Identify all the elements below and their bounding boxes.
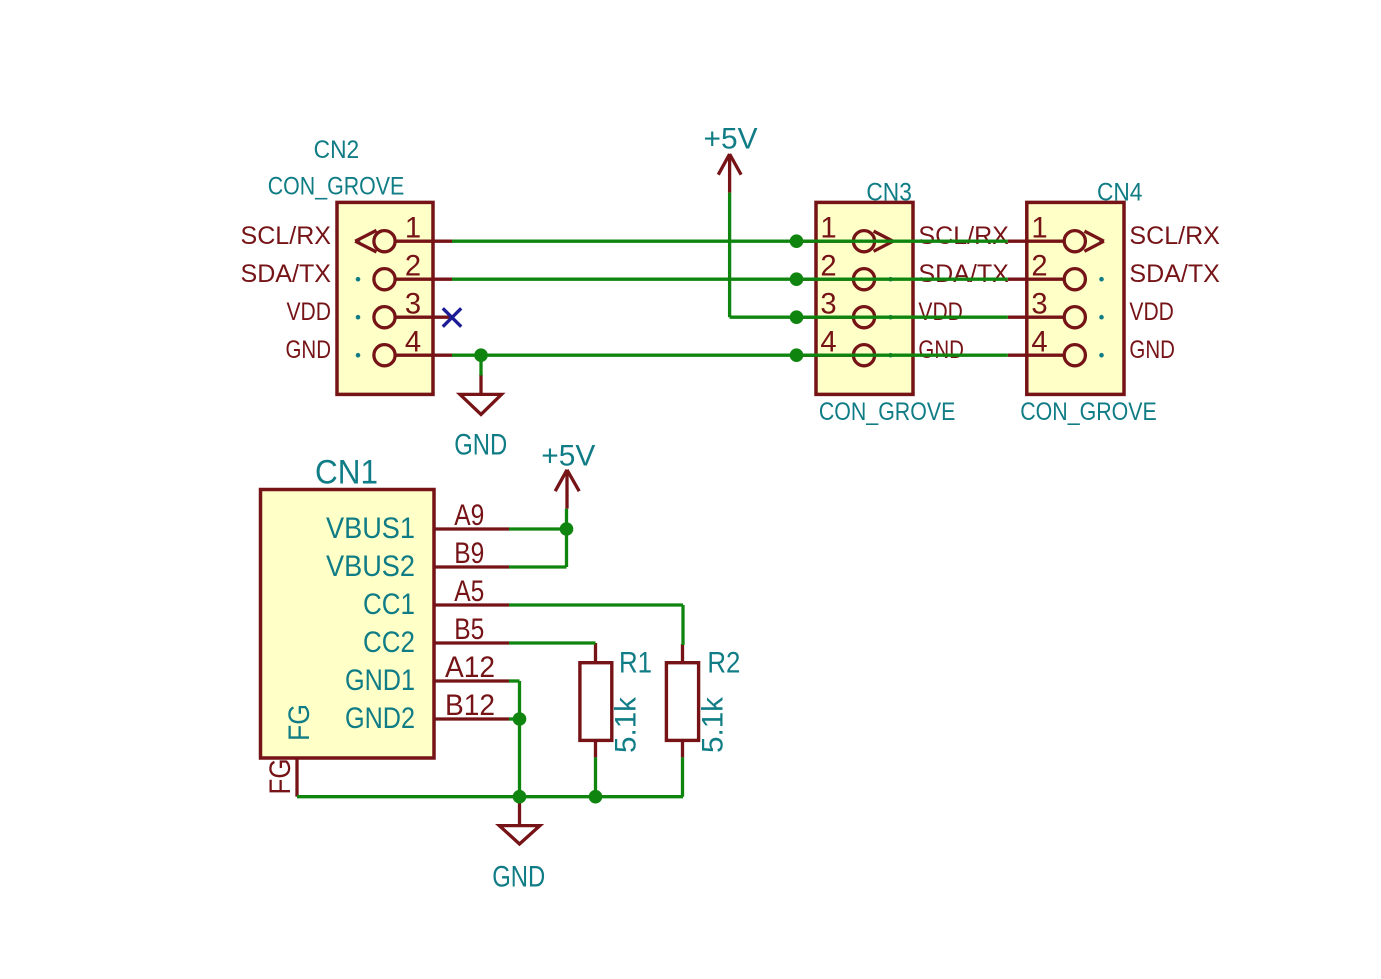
svg-text:FG: FG (284, 704, 316, 741)
svg-text:1: 1 (405, 213, 421, 245)
connector CN4 body (1027, 202, 1124, 394)
CN2 pin 4 name GND (286, 336, 332, 364)
R1 reference label (619, 648, 652, 680)
svg-text:1: 1 (1031, 213, 1047, 245)
svg-text:GND: GND (1129, 336, 1175, 364)
svg-text:GND: GND (454, 429, 507, 462)
svg-text:GND: GND (918, 336, 964, 364)
CN3 pin 3 number (820, 289, 836, 321)
CN4 pin 2 number (1031, 251, 1047, 283)
CN1 pin B9 stub (434, 565, 509, 568)
connector CN3 body (816, 202, 913, 394)
CN1 pin B12 name GND2 (345, 703, 415, 735)
CN2 pin 2 (stub, circle) (374, 269, 452, 290)
svg-text:VDD: VDD (287, 298, 332, 326)
svg-text:GND: GND (286, 336, 332, 364)
svg-text:R2: R2 (707, 648, 740, 680)
CN3 pin 1 number (820, 213, 836, 245)
wire net GND (CN2.4 to CN4.4) (452, 354, 1008, 357)
svg-text:+5V: +5V (704, 123, 758, 156)
CN2 pin 1 name SCL/RX (241, 222, 332, 250)
svg-text:3: 3 (1031, 289, 1047, 321)
svg-text:VDD: VDD (918, 298, 963, 326)
+5V net label (top) (704, 123, 758, 156)
wire +5V vertical drop to VDD (728, 193, 731, 318)
svg-text:VDD: VDD (1129, 298, 1174, 326)
wire net SCL/RX (CN2.1 to CN4.1) (452, 240, 1008, 243)
CN1 pin FG stub (bottom) (295, 758, 298, 797)
junction on VDD at CN3.3 (790, 310, 804, 324)
CN3 pin 3 (stub, circle) (797, 307, 875, 328)
svg-text:GND: GND (492, 861, 545, 894)
CN4 pin 2 (stub, circle) (1008, 269, 1086, 290)
CN2 pin 3 name VDD (287, 298, 332, 326)
CN1 reference label (315, 454, 378, 492)
CN1 pin A12 stub (434, 679, 509, 682)
CN1 pin B5 stub (434, 641, 509, 644)
CN1 pin A5 number (454, 576, 484, 608)
wire net SDA/TX (CN2.2 to CN4.2) (452, 278, 1008, 281)
CN1 pin B9 number (454, 538, 484, 570)
connector CN1 body (261, 490, 435, 759)
ground symbol GND (top, below CN2 pin 4) (460, 374, 502, 414)
svg-text:CON_GROVE: CON_GROVE (268, 172, 405, 200)
CN3 pin 1 name SCL/RX (918, 222, 1009, 250)
CN3 pin name anchor dots (888, 239, 893, 358)
R2 bottom pin stub (681, 740, 684, 757)
svg-text:SDA/TX: SDA/TX (241, 260, 332, 288)
CN3 pin 4 number (820, 327, 836, 359)
svg-text:CC2: CC2 (363, 627, 415, 659)
CN1 pin B5 name CC2 (363, 627, 415, 659)
wire GND2 (B12) horizontal (509, 717, 520, 720)
wire CC2 (B5) horizontal to R1 (509, 641, 596, 644)
R1 top pin stub (594, 643, 597, 663)
svg-text:A9: A9 (454, 500, 484, 532)
CN1 pin A12 name GND1 (345, 665, 415, 697)
wire VBUS1 (A9) to +5V (509, 527, 567, 530)
CN4 pin 3 (stub, circle) (1008, 307, 1086, 328)
GND net label (bottom) (492, 861, 545, 894)
CN4 reference label (1097, 179, 1143, 207)
svg-text:GND1: GND1 (345, 665, 415, 697)
junction on GND at ground symbol (top) (474, 348, 488, 362)
svg-text:+5V: +5V (541, 439, 595, 472)
CN1 pin B12 number (445, 690, 495, 722)
junction on rail at GND symbol (513, 790, 527, 804)
junction on SCL/RX at CN3.1 (790, 234, 804, 248)
GND net label (top) (454, 429, 507, 462)
CN2 value CON_GROVE (268, 172, 405, 200)
+5V net label (bottom) (541, 439, 595, 472)
junction on GND at CN3.4 (790, 348, 804, 362)
wire GND1 (A12) horizontal (509, 679, 520, 682)
CN1 pin A5 name CC1 (363, 589, 415, 621)
svg-text:R1: R1 (619, 648, 652, 680)
CN1 pin B9 name VBUS2 (326, 551, 415, 583)
svg-text:SCL/RX: SCL/RX (918, 222, 1009, 250)
CN2 pin 1 number (405, 213, 421, 245)
CN2 reference label (314, 136, 360, 164)
svg-text:CN1: CN1 (315, 454, 378, 492)
CN2 pin 2 number (405, 251, 421, 283)
svg-text:B9: B9 (454, 538, 484, 570)
resistor R1 body (580, 663, 612, 741)
wire +5V stem (bottom) (565, 509, 568, 529)
CN4 pin name anchor dots (1099, 239, 1104, 358)
CN1 pin B12 stub (434, 717, 509, 720)
CN3 pin 2 name SDA/TX (918, 260, 1009, 288)
CN4 pin 4 number (1031, 327, 1047, 359)
CN3 pin 1 (stub, circle, output arrow) (797, 231, 893, 252)
CN3 value CON_GROVE (819, 398, 956, 426)
wire R2 bottom to rail (681, 757, 684, 796)
CN1 pin A9 name VBUS1 (326, 513, 415, 545)
CN3 pin 4 (stub, circle) (797, 345, 875, 366)
junction on SDA/TX at CN3.2 (790, 272, 804, 286)
CN4 pin 3 name VDD (1129, 298, 1174, 326)
no-connect X on CN2 pin 3 (443, 308, 461, 326)
svg-text:CN2: CN2 (314, 136, 360, 164)
ground symbol GND (bottom) (499, 797, 540, 844)
wire VBUS2 vertical up to +5V node (565, 529, 568, 567)
R1 value 5.1k (rotated) (611, 697, 643, 753)
power symbol +5V (top) (718, 154, 741, 193)
CN4 pin 2 name SDA/TX (1129, 260, 1220, 288)
svg-text:3: 3 (405, 289, 421, 321)
CN2 pin 3 number (405, 289, 421, 321)
CN1 pin A9 number (454, 500, 484, 532)
CN2 pin 3 (stub, circle) (374, 307, 452, 328)
junction on rail at R1 (589, 790, 603, 804)
svg-text:5.1k: 5.1k (698, 697, 730, 753)
junction at +5V / VBUS node (560, 522, 574, 536)
svg-text:CON_GROVE: CON_GROVE (1020, 398, 1157, 426)
svg-text:A5: A5 (454, 576, 484, 608)
wire net VDD horizontal (730, 316, 1008, 319)
CN4 pin 1 name SCL/RX (1129, 222, 1220, 250)
CN3 pin 3 name VDD (918, 298, 963, 326)
CN4 pin 1 (stub, circle, output arrow) (1008, 231, 1104, 252)
CN1 pin A5 stub (434, 603, 509, 606)
CN1 pin B5 number (454, 614, 484, 646)
svg-text:CC1: CC1 (363, 589, 415, 621)
CN1 pin FG name (rotated, inside body) (284, 704, 316, 741)
CN2 pin 2 name SDA/TX (241, 260, 332, 288)
CN3 pin 4 name GND (918, 336, 964, 364)
R2 reference label (707, 648, 740, 680)
wire CC1 (A5) horizontal (509, 603, 683, 606)
svg-text:4: 4 (1031, 327, 1047, 359)
wire ground rail (FG to R2) (297, 795, 683, 798)
svg-text:GND2: GND2 (345, 703, 415, 735)
svg-text:SDA/TX: SDA/TX (1129, 260, 1220, 288)
CN1 pin A12 number (445, 652, 495, 684)
svg-text:CN4: CN4 (1097, 179, 1143, 207)
CN2 pin 4 (stub, circle) (374, 345, 452, 366)
svg-text:B12: B12 (445, 690, 495, 722)
svg-text:2: 2 (1031, 251, 1047, 283)
CN1 pin FG number (rotated, outside body) (265, 759, 297, 795)
svg-text:FG: FG (265, 759, 297, 795)
CN1 pin A9 stub (434, 527, 509, 530)
CN4 pin 3 number (1031, 289, 1047, 321)
CN2 pin 4 number (405, 327, 421, 359)
CN4 value CON_GROVE (1020, 398, 1157, 426)
svg-text:SCL/RX: SCL/RX (241, 222, 332, 250)
svg-text:SCL/RX: SCL/RX (1129, 222, 1220, 250)
svg-text:SDA/TX: SDA/TX (918, 260, 1009, 288)
wire R1 bottom to rail (594, 757, 597, 796)
CN4 pin 1 number (1031, 213, 1047, 245)
junction at GND1/GND2 node (513, 712, 527, 726)
svg-text:B5: B5 (454, 614, 484, 646)
CN3 pin 2 number (820, 251, 836, 283)
svg-text:5.1k: 5.1k (611, 697, 643, 753)
svg-text:2: 2 (405, 251, 421, 283)
resistor R2 body (666, 663, 698, 741)
CN3 pin 2 (stub, circle) (797, 269, 875, 290)
svg-text:CON_GROVE: CON_GROVE (819, 398, 956, 426)
CN3 reference label (866, 179, 912, 207)
svg-text:CN3: CN3 (866, 179, 912, 207)
wire GND1 vertical down to rail (518, 681, 521, 797)
wire GND symbol drop (top) (479, 355, 482, 375)
wire VBUS2 (B9) horizontal (509, 565, 567, 568)
CN2 pin name anchor dots (356, 239, 361, 358)
svg-text:A12: A12 (445, 652, 495, 684)
R2 top pin stub (681, 644, 684, 663)
svg-text:VBUS2: VBUS2 (326, 551, 415, 583)
wire CC1 vertical down to R2 (681, 605, 684, 645)
R1 bottom pin stub (594, 740, 597, 757)
connector CN2 body (337, 202, 433, 394)
CN2 pin 1 (stub, circle, input arrow) (355, 230, 452, 252)
CN4 pin 4 (stub, circle) (1008, 345, 1086, 366)
svg-text:VBUS1: VBUS1 (326, 513, 415, 545)
svg-text:4: 4 (405, 327, 421, 359)
R2 value 5.1k (rotated) (698, 697, 730, 753)
power symbol +5V (bottom) (555, 470, 579, 509)
CN4 pin 4 name GND (1129, 336, 1175, 364)
